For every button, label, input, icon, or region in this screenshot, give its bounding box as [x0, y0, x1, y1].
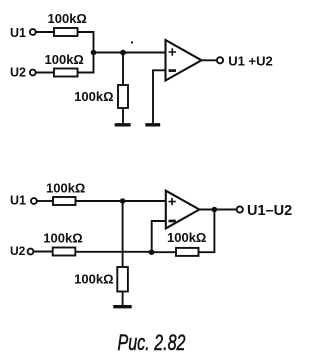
wire R3 to ground — [122, 108, 124, 123]
input terminal U2 (adder) — [30, 70, 36, 76]
node E junction (output node) — [212, 207, 218, 213]
wire U2 terminal to R5 — [34, 251, 53, 253]
wire op-amp − input to ground — [153, 70, 166, 123]
op-amp U2 + pin mark — [169, 198, 176, 205]
svg-text:Рис. 2.82: Рис. 2.82 — [118, 330, 186, 355]
svg-text:100kΩ: 100kΩ — [45, 52, 84, 67]
svg-text:U1: U1 — [10, 194, 26, 208]
svg-text:100kΩ: 100kΩ — [48, 11, 87, 26]
op-amp U1 − pin mark — [169, 69, 176, 72]
wire R6 to ground — [122, 292, 124, 306]
input terminal U2 (subtractor) — [28, 249, 34, 255]
svg-text:100kΩ: 100kΩ — [167, 230, 206, 245]
op-amp U2 (subtractor) triangle — [166, 191, 200, 229]
wire R1 to node A — [78, 32, 94, 53]
op-amp U1 + pin mark — [169, 48, 176, 55]
ground under R3 — [115, 123, 131, 126]
svg-text:U1–U2: U1–U2 — [247, 203, 292, 219]
wire node D to R7 — [152, 251, 177, 253]
svg-text:U2: U2 — [10, 66, 26, 80]
svg-text:U1: U1 — [10, 26, 26, 40]
input terminal U1 (adder) — [30, 29, 36, 35]
svg-text:100kΩ: 100kΩ — [74, 89, 113, 104]
resistor R7 100k (feedback, subtractor) — [176, 248, 199, 256]
node D junction (inverting node) — [149, 249, 155, 255]
op-amp U1 (adder) triangle — [166, 40, 202, 81]
wire U1 terminal to R1 — [36, 31, 54, 33]
svg-text:100kΩ: 100kΩ — [74, 271, 113, 286]
op-amp U2 − pin mark — [169, 220, 176, 223]
node C junction (divider tap, subtractor) — [120, 198, 126, 204]
svg-text:100kΩ: 100kΩ — [43, 231, 82, 246]
node A junction (summing node) — [91, 50, 97, 56]
resistor R1 100k (U1 input, adder) — [54, 28, 78, 36]
output terminal (subtractor) — [237, 206, 243, 212]
wire op-amp output to terminal (subtractor) — [199, 209, 236, 211]
resistor R5 100k (U2 input, subtractor) — [53, 248, 76, 256]
wire R5 to node D — [75, 251, 151, 253]
wire node A to op-amp + input — [94, 52, 166, 54]
wire R4 to op-amp + input — [76, 200, 166, 202]
ground under R6 — [113, 305, 131, 308]
resistor R4 100k (U1 input, subtractor) — [53, 197, 76, 205]
wire U2 terminal to R2 — [36, 72, 54, 74]
svg-text:U2: U2 — [10, 244, 26, 258]
wire node D up to op-amp − input — [152, 221, 166, 252]
wire op-amp output to terminal — [202, 59, 217, 61]
svg-text:U1 +U2: U1 +U2 — [228, 53, 272, 68]
input terminal U1 (subtractor) — [31, 198, 37, 204]
svg-text:100kΩ: 100kΩ — [46, 181, 85, 196]
wire U1 terminal to R4 — [37, 200, 53, 202]
ground at op-amp − input — [145, 123, 160, 126]
node B junction (divider tap) — [120, 50, 126, 56]
wire R2 to node A — [78, 53, 94, 73]
output terminal (adder) — [217, 57, 223, 63]
resistor R2 100k (U2 input, adder) — [54, 69, 78, 77]
printing speck — [131, 41, 133, 43]
resistor R6 100k (to ground, subtractor) — [117, 267, 128, 292]
resistor R3 100k (to ground, adder) — [118, 85, 128, 108]
wire R7 up to node E — [199, 210, 215, 253]
wire node B down to R3 — [122, 53, 124, 86]
wire node C down to R6 — [122, 201, 124, 267]
